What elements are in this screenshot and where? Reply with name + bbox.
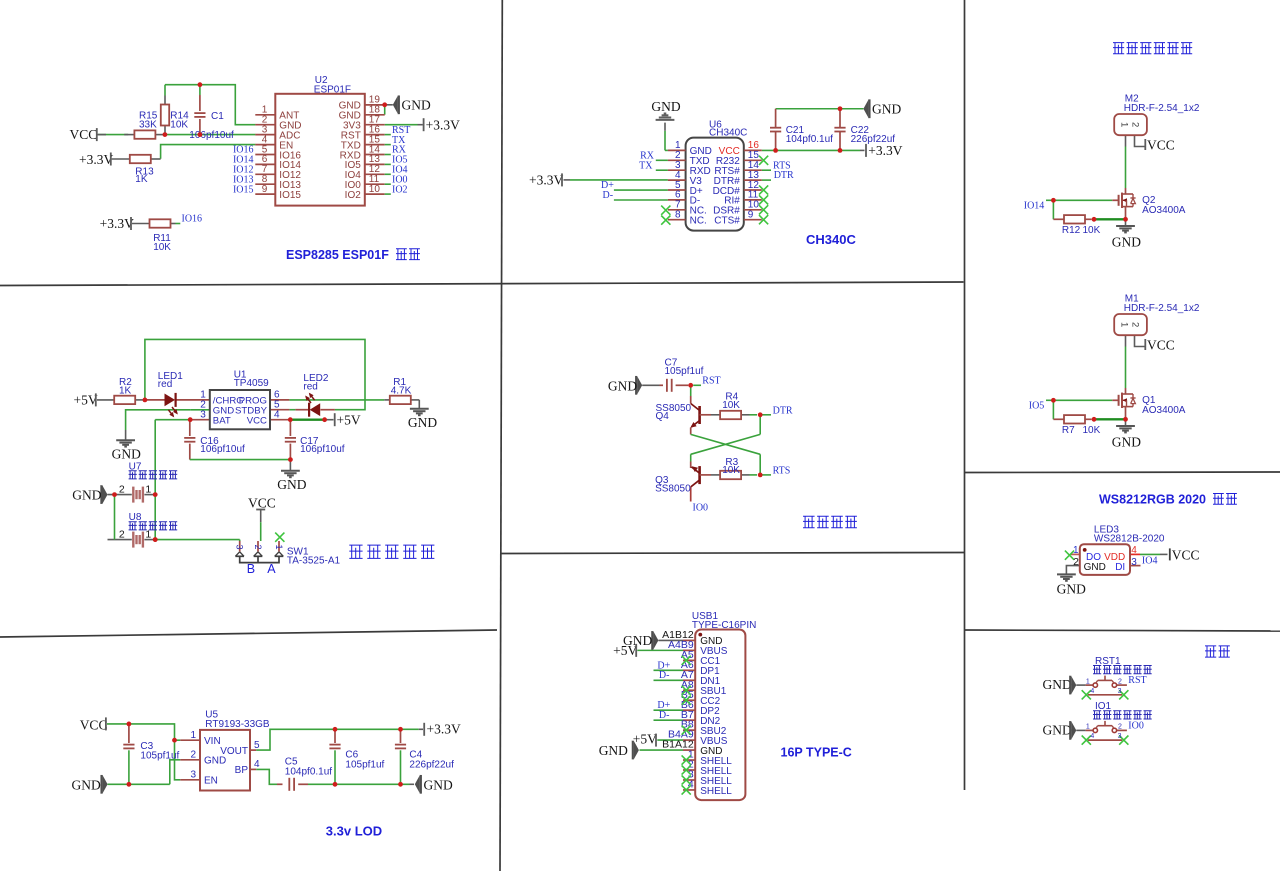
svg-text:104pf0.1uf: 104pf0.1uf xyxy=(786,134,833,145)
svg-text:IO0: IO0 xyxy=(693,502,709,513)
svg-text:GND: GND xyxy=(112,446,141,461)
svg-text:10: 10 xyxy=(369,184,381,195)
svg-text:+5V: +5V xyxy=(613,643,637,658)
svg-text:TX: TX xyxy=(639,160,653,171)
svg-text:GND: GND xyxy=(72,487,101,502)
svg-text:2: 2 xyxy=(190,750,196,761)
svg-text:4: 4 xyxy=(254,759,260,770)
svg-text:1K: 1K xyxy=(135,174,148,185)
svg-text:AO3400A: AO3400A xyxy=(1142,405,1186,416)
svg-text:GND: GND xyxy=(1084,562,1106,573)
svg-text:9: 9 xyxy=(748,210,754,221)
svg-text:TA-3525-A1: TA-3525-A1 xyxy=(287,555,341,566)
svg-text:+5V: +5V xyxy=(74,393,98,408)
svg-text:GND: GND xyxy=(599,743,628,758)
svg-text:4: 4 xyxy=(1090,733,1094,740)
svg-text:33K: 33K xyxy=(139,119,157,130)
svg-text:+5V: +5V xyxy=(633,731,657,746)
svg-text:GND: GND xyxy=(1043,722,1072,737)
svg-text:TYPE-C16PIN: TYPE-C16PIN xyxy=(692,620,756,631)
svg-text:104pf0.1uf: 104pf0.1uf xyxy=(285,767,332,778)
svg-text:1: 1 xyxy=(190,730,196,741)
svg-text:4: 4 xyxy=(1090,688,1094,695)
svg-text:1K: 1K xyxy=(119,385,132,396)
svg-text:A: A xyxy=(267,562,276,576)
svg-text:4: 4 xyxy=(274,410,280,421)
svg-text:GND: GND xyxy=(651,99,680,114)
svg-text:10K: 10K xyxy=(722,465,740,476)
svg-text:VCC: VCC xyxy=(247,416,267,427)
svg-text:RTS: RTS xyxy=(773,465,791,476)
svg-text:IO15: IO15 xyxy=(233,184,254,195)
svg-text:VCC: VCC xyxy=(1147,337,1175,352)
svg-text:BAT: BAT xyxy=(213,416,231,427)
svg-text:CTS#: CTS# xyxy=(714,216,740,227)
svg-text:D-: D- xyxy=(659,670,670,681)
svg-text:16P TYPE-C: 16P TYPE-C xyxy=(781,745,852,759)
svg-text:2: 2 xyxy=(1118,724,1122,731)
svg-text:GND: GND xyxy=(402,98,431,113)
svg-text:1: 1 xyxy=(1086,678,1090,685)
svg-text:AO3400A: AO3400A xyxy=(1142,205,1186,216)
svg-text:R12: R12 xyxy=(1062,225,1081,236)
svg-text:CH340C: CH340C xyxy=(709,128,747,139)
svg-text:+5V: +5V xyxy=(337,412,361,427)
svg-text:1: 1 xyxy=(1119,322,1130,327)
svg-text:3: 3 xyxy=(190,770,196,781)
svg-text:DI: DI xyxy=(1115,562,1125,573)
svg-text:BP: BP xyxy=(235,765,249,776)
svg-text:D-: D- xyxy=(603,190,614,201)
svg-text:ESP8285 ESP01F: ESP8285 ESP01F xyxy=(286,248,389,262)
svg-text:105pf1uf: 105pf1uf xyxy=(345,759,384,770)
svg-text:3: 3 xyxy=(200,410,206,421)
svg-text:2: 2 xyxy=(253,544,263,549)
svg-text:3: 3 xyxy=(1131,557,1137,568)
svg-text:IO15: IO15 xyxy=(279,190,301,201)
svg-text:10K: 10K xyxy=(170,119,188,130)
svg-text:GND: GND xyxy=(1112,434,1141,449)
svg-text:+3.3V: +3.3V xyxy=(100,216,134,231)
svg-text:105pf1uf: 105pf1uf xyxy=(140,751,179,762)
svg-text:3.3v LOD: 3.3v LOD xyxy=(326,824,382,839)
svg-text:GND: GND xyxy=(424,778,453,793)
svg-text:HDR-F-2.54_1x2: HDR-F-2.54_1x2 xyxy=(1124,103,1200,114)
svg-text:1: 1 xyxy=(274,544,284,549)
svg-text:TP4059: TP4059 xyxy=(234,378,269,389)
svg-text:IO4: IO4 xyxy=(1142,556,1158,567)
svg-text:GND: GND xyxy=(608,378,637,393)
svg-text:C1: C1 xyxy=(211,111,224,122)
svg-text:CH340C: CH340C xyxy=(806,232,856,247)
svg-text:3: 3 xyxy=(1118,733,1122,740)
svg-text:R7: R7 xyxy=(1062,425,1075,436)
svg-text:VCC: VCC xyxy=(1172,547,1200,562)
svg-text:GND: GND xyxy=(1112,234,1141,249)
svg-text:GND: GND xyxy=(408,415,437,430)
svg-text:EN: EN xyxy=(204,776,218,787)
svg-text:GND: GND xyxy=(204,756,226,767)
svg-text:+3.3V: +3.3V xyxy=(426,118,460,133)
svg-text:106pf10uf: 106pf10uf xyxy=(189,130,234,141)
svg-text:Q4: Q4 xyxy=(656,411,670,422)
svg-text:ESP01F: ESP01F xyxy=(314,85,351,96)
svg-text:1: 1 xyxy=(1119,122,1130,127)
svg-text:106pf10uf: 106pf10uf xyxy=(300,444,345,455)
svg-text:2: 2 xyxy=(1073,556,1079,568)
svg-text:8: 8 xyxy=(675,210,681,221)
svg-text:NC.: NC. xyxy=(690,216,707,227)
svg-text:105pf1uf: 105pf1uf xyxy=(665,366,704,377)
svg-text:4: 4 xyxy=(688,779,694,791)
svg-text:RST: RST xyxy=(702,375,720,386)
svg-text:IO0: IO0 xyxy=(1128,720,1144,731)
svg-text:D-: D- xyxy=(659,710,670,721)
svg-text:U8: U8 xyxy=(129,512,142,523)
svg-text:red: red xyxy=(303,381,317,392)
svg-text:VCC: VCC xyxy=(248,496,276,511)
svg-text:4.7K: 4.7K xyxy=(391,385,412,396)
svg-text:1: 1 xyxy=(1073,545,1079,556)
svg-text:HDR-F-2.54_1x2: HDR-F-2.54_1x2 xyxy=(1124,303,1200,314)
svg-text:DTR: DTR xyxy=(774,170,794,181)
svg-text:IO2: IO2 xyxy=(392,184,408,195)
svg-text:2: 2 xyxy=(119,483,125,495)
svg-text:+3.3V: +3.3V xyxy=(427,722,461,737)
svg-text:5: 5 xyxy=(254,740,260,751)
svg-text:GND: GND xyxy=(1043,677,1072,692)
svg-text:VCC: VCC xyxy=(1147,137,1175,152)
svg-text:GND: GND xyxy=(72,777,101,792)
svg-text:IO2: IO2 xyxy=(345,190,362,201)
svg-text:2: 2 xyxy=(1130,322,1141,327)
svg-text:SS8050: SS8050 xyxy=(655,484,691,495)
svg-text:RT9193-33GB: RT9193-33GB xyxy=(205,719,270,730)
svg-text:VOUT: VOUT xyxy=(220,746,248,757)
svg-text:10K: 10K xyxy=(1083,225,1101,236)
svg-text:2: 2 xyxy=(1130,122,1141,127)
svg-text:10K: 10K xyxy=(153,242,171,253)
svg-text:red: red xyxy=(158,379,172,390)
svg-text:IO16: IO16 xyxy=(182,213,203,224)
svg-text:1: 1 xyxy=(1086,724,1090,731)
svg-text:+3.3V: +3.3V xyxy=(79,152,113,167)
svg-text:VCC: VCC xyxy=(80,717,108,732)
svg-text:VCC: VCC xyxy=(70,127,98,142)
svg-text:10K: 10K xyxy=(722,400,740,411)
svg-text:226pf22uf: 226pf22uf xyxy=(851,134,896,145)
svg-text:VIN: VIN xyxy=(204,736,221,747)
svg-text:SHELL: SHELL xyxy=(700,786,732,797)
svg-text:106pf10uf: 106pf10uf xyxy=(200,444,245,455)
svg-text:RST: RST xyxy=(1128,675,1146,686)
svg-text:3: 3 xyxy=(235,544,245,549)
svg-text:+3.3V: +3.3V xyxy=(868,143,902,158)
svg-text:1: 1 xyxy=(145,483,151,495)
svg-text:3: 3 xyxy=(1118,688,1122,695)
svg-text:GND: GND xyxy=(277,477,306,492)
svg-text:GND: GND xyxy=(872,102,901,117)
svg-text:B: B xyxy=(247,562,255,576)
svg-text:DTR: DTR xyxy=(773,405,793,416)
svg-text:IO14: IO14 xyxy=(1024,200,1045,211)
svg-text:4: 4 xyxy=(1131,545,1137,556)
svg-text:9: 9 xyxy=(262,184,268,195)
svg-text:IO5: IO5 xyxy=(1029,400,1045,411)
svg-text:GND: GND xyxy=(1057,581,1086,596)
svg-text:226pf22uf: 226pf22uf xyxy=(409,759,454,770)
svg-text:2: 2 xyxy=(1118,678,1122,685)
svg-text:WS8212RGB 2020: WS8212RGB 2020 xyxy=(1099,493,1206,507)
svg-text:WS2812B-2020: WS2812B-2020 xyxy=(1094,533,1165,544)
svg-text:10K: 10K xyxy=(1083,425,1101,436)
svg-text:+3.3V: +3.3V xyxy=(529,172,563,187)
svg-text:2: 2 xyxy=(119,528,125,540)
